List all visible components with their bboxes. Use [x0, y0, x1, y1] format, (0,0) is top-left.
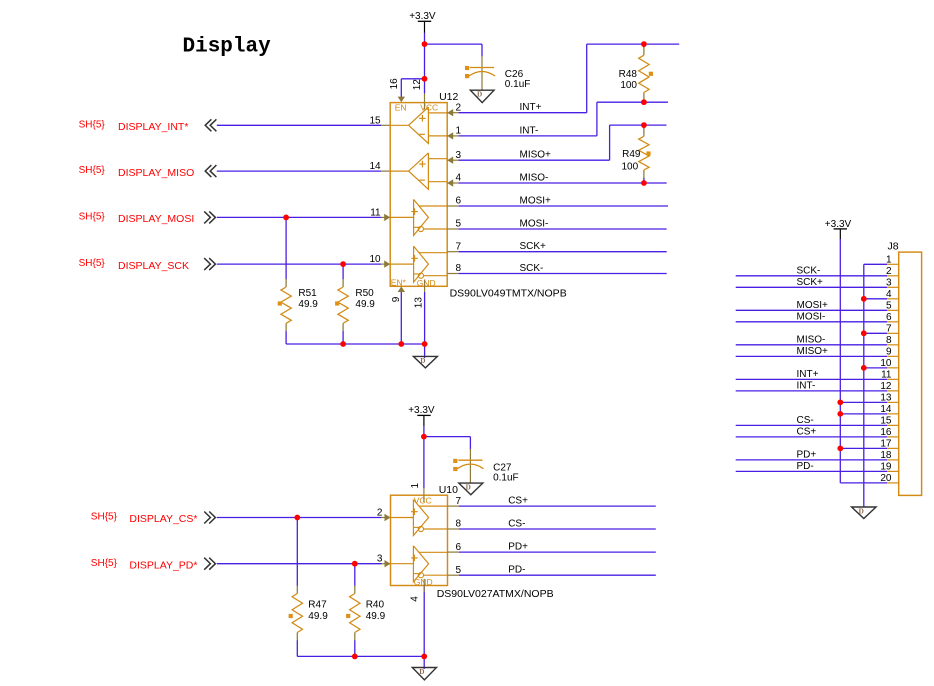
op-amp U12 body — [390, 103, 447, 287]
svg-text:4: 4 — [409, 596, 420, 602]
resistor R40 — [354, 564, 356, 586]
svg-text:CS-: CS- — [508, 519, 525, 530]
wire VCC pin 1 (U10) — [423, 437, 425, 488]
J8 pin 17 stub — [887, 447, 899, 449]
pin 5 stub (U10) — [448, 574, 459, 576]
pin 3 stub (U10) — [382, 563, 391, 565]
svg-text:2: 2 — [455, 102, 461, 113]
U12 driver buffer — [414, 199, 429, 235]
pin 4 input arrow — [447, 179, 453, 186]
svg-text:6: 6 — [455, 196, 461, 207]
pin 2 input arrow — [447, 109, 453, 116]
pin 1 line into box (U10) — [423, 495, 425, 502]
J8 pin 18 stub — [887, 459, 899, 461]
wire CS+ net — [459, 505, 656, 507]
ground (C26) — [470, 90, 494, 102]
J8 pin 15 stub — [887, 424, 899, 426]
svg-text:+3.3V: +3.3V — [408, 405, 435, 416]
wire J8 pin13 to +3.3V bus — [840, 401, 887, 403]
wire MISO- net — [459, 182, 667, 184]
svg-text:SCK-: SCK- — [520, 263, 544, 274]
junction R50 / ground rail — [340, 341, 346, 347]
wire J8 pin20 to +3.3V bus — [840, 482, 887, 484]
svg-text:13: 13 — [414, 297, 425, 309]
svg-text:12: 12 — [412, 79, 423, 91]
wire GND pin 13 — [424, 292, 426, 344]
svg-text:PD+: PD+ — [508, 542, 528, 553]
J8 pin 9 stub — [887, 355, 899, 357]
resistor R51 — [285, 217, 287, 279]
wire MOSI- net — [459, 228, 667, 230]
J8 pin 5 stub — [887, 309, 899, 311]
svg-text:+3.3V: +3.3V — [409, 11, 436, 22]
pin 10 stub — [381, 263, 390, 265]
junction pin 4 / ground rail — [421, 654, 427, 660]
svg-text:49.9: 49.9 — [355, 299, 375, 310]
U10 driver buffer — [413, 500, 428, 536]
junction R48 bottom — [641, 99, 647, 105]
svg-text:8: 8 — [455, 519, 461, 530]
off-page connector DISPLAY_PD* — [204, 558, 215, 570]
off-page connector DISPLAY_SCK — [204, 258, 215, 270]
svg-text:MOSI+: MOSI+ — [797, 300, 829, 311]
pin 7 stub (U10) — [448, 505, 459, 507]
wire PD- net — [459, 574, 656, 576]
junction VCC node U12 — [422, 76, 428, 82]
J8 pin 20 stub — [887, 482, 899, 484]
svg-text:SH{5}: SH{5} — [91, 558, 118, 569]
svg-text:U12: U12 — [439, 91, 458, 103]
pin 15 stub — [381, 124, 390, 126]
svg-text:100: 100 — [622, 162, 639, 173]
ground (U12) — [413, 356, 437, 368]
svg-text:100: 100 — [620, 80, 637, 91]
resistor R49 — [643, 125, 645, 129]
wire MOSI+ net — [459, 205, 668, 207]
svg-text:DISPLAY_MOSI: DISPLAY_MOSI — [118, 213, 194, 225]
junction +3.3V bus pin 14 — [837, 411, 843, 417]
pin 6 stub (U10) — [448, 551, 459, 553]
svg-text:PD+: PD+ — [797, 449, 817, 460]
junction DISPLAY_PD* / R40 — [352, 561, 358, 567]
svg-text:DISPLAY_SCK: DISPLAY_SCK — [118, 260, 189, 272]
wire J8 INT- — [736, 390, 887, 392]
J8 pin 8 stub — [887, 344, 899, 346]
wire ground rail (U12) — [286, 343, 425, 345]
svg-text:MISO-: MISO- — [520, 173, 549, 184]
wire DISPLAY_MOSI — [217, 216, 381, 218]
svg-text:MOSI+: MOSI+ — [520, 196, 552, 207]
pin 9 arrow — [398, 286, 405, 292]
wire to ground (U12) — [424, 344, 426, 358]
pin 4 line into box (U10) — [423, 579, 425, 586]
svg-text:11: 11 — [370, 207, 381, 218]
wire INT+ net — [459, 112, 587, 114]
off-page connector DISPLAY_MISO — [205, 165, 216, 177]
wire J8 PD+ — [736, 459, 887, 461]
pin 2 input arrow (U10) — [385, 514, 391, 521]
junction +3.3V / C26 — [422, 41, 428, 47]
svg-text:PD-: PD- — [797, 461, 814, 472]
svg-text:MISO-: MISO- — [797, 334, 826, 345]
wire J8 SCK+ — [736, 286, 887, 288]
junction R49 top — [641, 122, 647, 128]
pin 5 stub — [447, 228, 458, 230]
wire J8 pin7 to GND bus — [864, 332, 887, 334]
svg-text:SH{5}: SH{5} — [79, 212, 106, 223]
wire DISPLAY_SCK — [217, 263, 381, 265]
svg-text:49.9: 49.9 — [298, 299, 318, 310]
wire to ground (U10) — [423, 656, 425, 669]
resistor R50 — [342, 264, 344, 279]
svg-text:D: D — [420, 357, 425, 365]
svg-text:SH{5}: SH{5} — [79, 165, 106, 176]
U12 receiver buffer — [409, 107, 429, 143]
svg-text:R48: R48 — [619, 69, 638, 80]
J8 pin 19 stub — [887, 470, 899, 472]
op-amp U10 body — [391, 495, 448, 585]
svg-text:SH{5}: SH{5} — [79, 258, 106, 269]
svg-text:INT+: INT+ — [797, 369, 819, 380]
wire J8 pin14 to +3.3V bus — [840, 413, 887, 415]
wire +3.3V drop (J8) — [839, 229, 841, 239]
junction +3.3V / C27 — [421, 434, 427, 440]
svg-text:PD-: PD- — [508, 565, 525, 576]
svg-text:8: 8 — [455, 263, 461, 274]
wire J8 pin1 to GND bus — [864, 263, 887, 265]
svg-text:R51: R51 — [298, 288, 317, 299]
U12 driver buffer — [414, 246, 429, 282]
pin 7 stub — [447, 251, 458, 253]
off-page connector DISPLAY_CS* — [204, 512, 215, 524]
svg-text:0.1uF: 0.1uF — [505, 79, 531, 90]
wire EN jog — [401, 78, 424, 80]
pin 4 stub — [447, 182, 458, 184]
J8 pin 10 stub — [887, 367, 899, 369]
wire VCC pin 12 — [424, 79, 426, 94]
svg-text:0.1uF: 0.1uF — [493, 472, 519, 483]
pin 2 stub (U10) — [382, 517, 391, 519]
svg-text:SCK-: SCK- — [797, 265, 821, 276]
junction DISPLAY_SCK / R50 — [340, 261, 346, 267]
svg-text:U10: U10 — [439, 484, 458, 496]
J8 pin 12 stub — [887, 390, 899, 392]
U10 driver buffer — [413, 546, 428, 582]
pin 3 stub — [447, 159, 458, 161]
svg-text:DISPLAY_PD*: DISPLAY_PD* — [129, 559, 197, 571]
svg-text:R50: R50 — [355, 288, 374, 299]
svg-text:7: 7 — [455, 496, 461, 507]
junction R49 bottom — [641, 180, 647, 186]
J8 pin 3 stub — [887, 286, 899, 288]
U12 receiver buffer — [409, 153, 429, 189]
wire DISPLAY_MISO — [217, 170, 381, 172]
resistor R47 — [296, 518, 298, 587]
off-page connector DISPLAY_MOSI — [204, 211, 215, 223]
capacitor C27 — [469, 437, 471, 450]
wire +3.3V drop — [424, 21, 426, 33]
pin 11 stub — [381, 216, 390, 218]
wire J8 SCK- — [736, 275, 887, 277]
wire J8 CS+ — [736, 436, 887, 438]
svg-text:MISO+: MISO+ — [797, 346, 829, 357]
svg-text:D: D — [859, 507, 864, 515]
pin 8 stub — [447, 273, 458, 275]
svg-text:9: 9 — [391, 296, 402, 302]
svg-text:EN: EN — [395, 102, 407, 112]
wire J8 MOSI+ — [736, 309, 887, 311]
pin 1 stub — [447, 135, 458, 137]
junction pin 13 / ground rail — [422, 341, 428, 347]
wire DISPLAY_PD* — [217, 563, 382, 565]
svg-text:3: 3 — [455, 150, 461, 161]
wire J8 INT+ — [736, 378, 887, 380]
pin 11 input arrow — [384, 214, 390, 221]
junction +3.3V bus pin 13 — [837, 399, 843, 405]
J8 pin 16 stub — [887, 436, 899, 438]
svg-text:CS-: CS- — [797, 415, 814, 426]
svg-text:3: 3 — [377, 554, 383, 565]
svg-text:MISO+: MISO+ — [520, 150, 552, 161]
svg-text:SH{5}: SH{5} — [79, 119, 106, 130]
svg-text:1: 1 — [455, 126, 461, 137]
pin 13 line into box — [424, 280, 426, 287]
ground (J8) — [852, 507, 877, 519]
pin 1 input arrow — [447, 132, 453, 139]
pin 6 stub — [447, 205, 458, 207]
svg-text:DISPLAY_INT*: DISPLAY_INT* — [118, 121, 188, 133]
J8 pin 14 stub — [887, 413, 899, 415]
svg-text:SCK+: SCK+ — [520, 241, 547, 252]
svg-text:14: 14 — [369, 161, 381, 172]
wire J8 pin17 to +3.3V bus — [840, 447, 887, 449]
wire DISPLAY_CS* — [217, 517, 382, 519]
junction DISPLAY_MOSI / R51 — [283, 215, 289, 221]
wire SCK+ net — [459, 251, 667, 253]
wire +3.3V to C27 — [424, 436, 471, 438]
wire ground rail (U10) — [297, 655, 424, 657]
wire J8 pin4 to GND bus — [864, 298, 887, 300]
pin 8 stub (U10) — [448, 528, 459, 530]
wire GND pin 4 (U10) — [423, 586, 425, 657]
wire EN* pin 9 — [400, 292, 402, 344]
connector J8 body — [899, 252, 922, 495]
svg-text:SCK+: SCK+ — [797, 277, 824, 288]
svg-text:10: 10 — [369, 254, 381, 265]
J8 pin 13 stub — [887, 401, 899, 403]
pin 3 input arrow (U10) — [385, 560, 391, 567]
svg-text:6: 6 — [455, 542, 461, 553]
svg-text:DISPLAY_MISO: DISPLAY_MISO — [118, 167, 194, 179]
svg-text:D: D — [419, 668, 424, 676]
svg-text:16: 16 — [389, 78, 400, 90]
svg-text:MOSI-: MOSI- — [797, 311, 826, 322]
svg-text:DISPLAY_CS*: DISPLAY_CS* — [129, 513, 197, 525]
svg-text:4: 4 — [455, 173, 461, 184]
pin 12 line into box — [424, 103, 426, 110]
wire J8 PD- — [736, 470, 887, 472]
wire J8 MOSI- — [736, 321, 887, 323]
svg-text:DS90LV027ATMX/NOPB: DS90LV027ATMX/NOPB — [437, 588, 554, 600]
junction DISPLAY_CS* / R47 — [294, 515, 300, 521]
pin 2 stub — [447, 112, 458, 114]
svg-text:49.9: 49.9 — [366, 611, 386, 622]
svg-text:J8: J8 — [888, 240, 899, 252]
wire SCK- net — [459, 273, 667, 275]
svg-text:MOSI-: MOSI- — [520, 219, 549, 230]
J8 pin 11 stub — [887, 378, 899, 380]
wire J8 CS- — [736, 424, 887, 426]
off-page connector DISPLAY_INT* — [205, 119, 216, 131]
svg-text:D: D — [477, 91, 482, 99]
svg-text:R40: R40 — [366, 599, 385, 610]
wire +3.3V to C26 — [425, 43, 483, 45]
wire PD+ net — [459, 551, 656, 553]
J8 pin 7 stub — [887, 332, 899, 334]
svg-text:VCC: VCC — [420, 102, 438, 112]
wire INT- net — [459, 135, 597, 137]
svg-text:5: 5 — [455, 565, 461, 576]
wire J8 MISO+ — [736, 355, 887, 357]
svg-text:DS90LV049TMTX/NOPB: DS90LV049TMTX/NOPB — [450, 288, 567, 300]
J8 pin 4 stub — [887, 298, 899, 300]
svg-text:SH{5}: SH{5} — [91, 512, 118, 523]
wire J8 pin10 to GND bus — [864, 367, 887, 369]
resistor R48 — [643, 44, 645, 48]
ground (C27) — [459, 483, 483, 495]
junction R40 / ground rail — [352, 654, 358, 660]
svg-text:49.9: 49.9 — [308, 611, 328, 622]
pin 10 input arrow — [384, 260, 390, 267]
capacitor C26 — [481, 44, 483, 56]
ground (U10) — [412, 668, 436, 680]
svg-text:EN*: EN* — [391, 277, 407, 287]
junction +3.3V bus pin 17 — [837, 445, 843, 451]
junction GND bus pin 7 — [861, 330, 867, 336]
J8 pin 6 stub — [887, 321, 899, 323]
wire MISO+ net — [459, 159, 610, 161]
J8 pin 2 stub — [887, 275, 899, 277]
pin 3 input arrow — [447, 157, 453, 164]
svg-text:1: 1 — [410, 483, 421, 489]
svg-text:R47: R47 — [308, 599, 327, 610]
junction R48 top — [641, 41, 647, 47]
pin 14 stub — [381, 170, 390, 172]
svg-text:CS+: CS+ — [797, 426, 817, 437]
wire GND bus (J8) — [863, 264, 865, 507]
junction GND bus pin 10 — [861, 365, 867, 371]
junction pin 9 / ground rail — [398, 341, 404, 347]
wire +3.3V drop (U10) — [423, 415, 425, 426]
J8 pin 1 stub — [887, 263, 899, 265]
svg-text:INT-: INT- — [797, 380, 816, 391]
svg-text:7: 7 — [455, 241, 461, 252]
svg-text:15: 15 — [369, 115, 381, 126]
wire DISPLAY_INT* — [217, 124, 381, 126]
svg-text:+3.3V: +3.3V — [825, 219, 852, 230]
svg-text:INT-: INT- — [520, 125, 539, 136]
svg-text:CS+: CS+ — [508, 496, 528, 507]
wire CS- net — [459, 528, 656, 530]
svg-text:D: D — [466, 484, 471, 492]
svg-text:2: 2 — [377, 508, 383, 519]
svg-text:R49: R49 — [622, 149, 641, 160]
svg-text:5: 5 — [455, 219, 461, 230]
wire J8 MISO- — [736, 344, 887, 346]
svg-text:GND: GND — [417, 278, 436, 288]
svg-text:Display: Display — [183, 36, 272, 59]
svg-text:INT+: INT+ — [520, 102, 542, 113]
pin 16 EN arrow — [398, 97, 405, 103]
junction GND bus pin 4 — [861, 296, 867, 302]
